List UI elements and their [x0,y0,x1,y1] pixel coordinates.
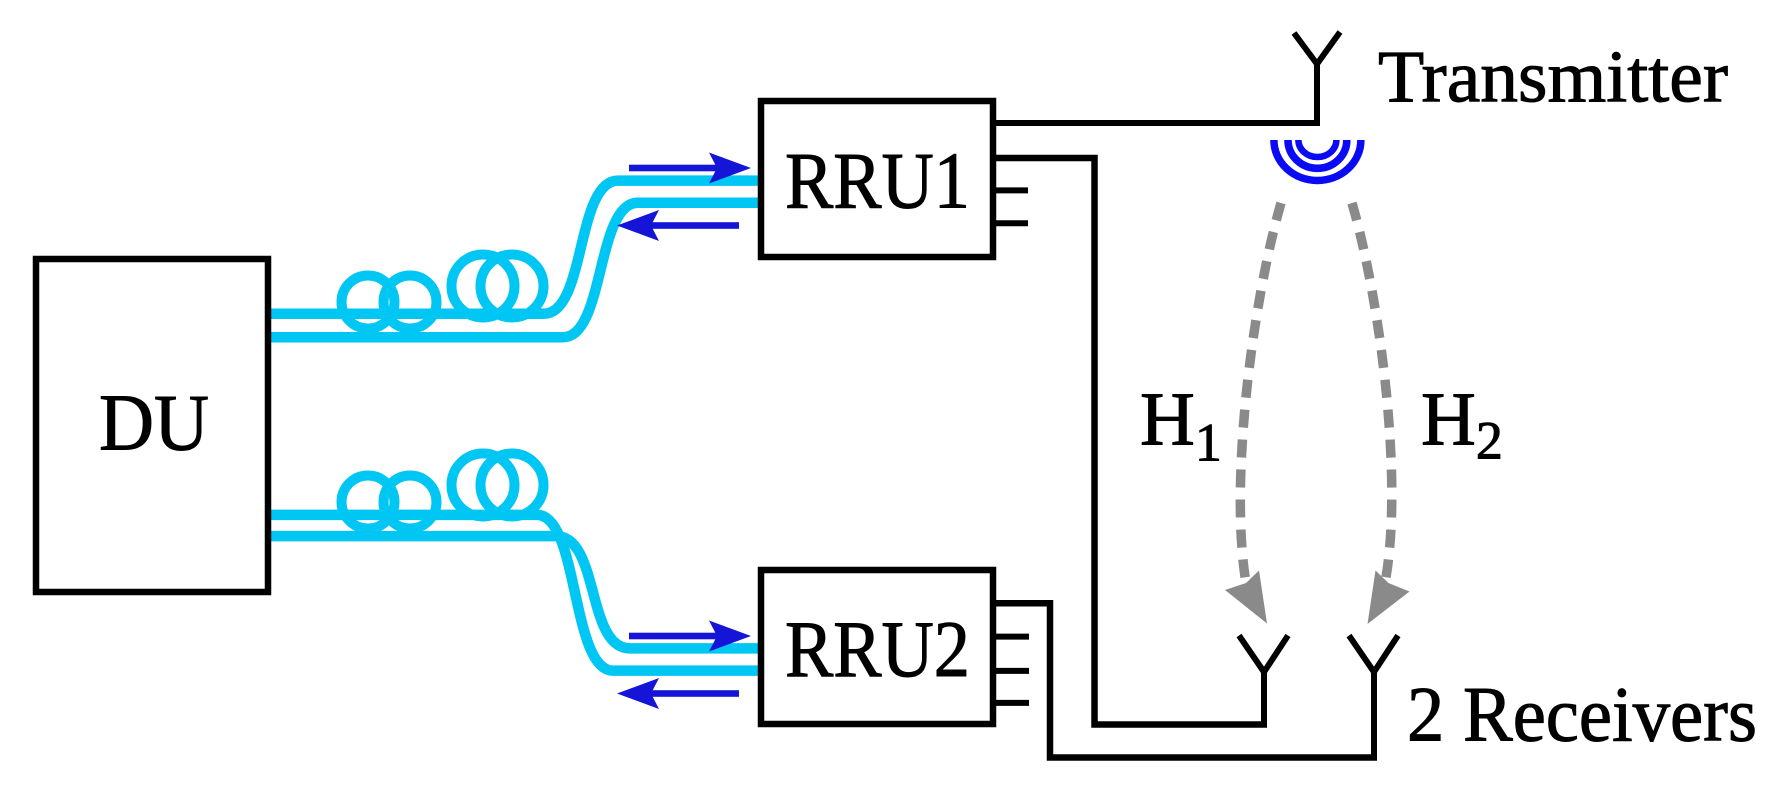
radio wave arcs under transmitter [1274,140,1361,181]
svg-text:Transmitter: Transmitter [1378,37,1728,119]
svg-text:DU: DU [99,380,209,468]
RRU2 box [761,570,993,724]
arrowhead H1 [1225,571,1267,624]
svg-text:RRU1: RRU1 [785,138,970,226]
uplink arrow bottom (left-pointing) [617,678,739,709]
stub RRU2 port3 [996,668,1029,674]
fiber coil group 2 on top path [452,255,515,318]
downlink arrow top (right-pointing) [629,153,751,184]
fiber pair DU to RRU1, upper fiber [269,181,760,314]
receiver 1 antenna [1239,636,1288,725]
stub RRU2 port2 [996,634,1029,640]
DU box [36,259,268,592]
fiber pair DU to RRU2, upper fiber [269,515,760,671]
wire RRU1 port1 to transmitter antenna [996,120,1317,126]
fiber coil group 1 on top path [342,276,395,329]
dashed channel H1 [1240,203,1281,583]
stub RRU1 port4 [996,220,1028,226]
wire RRU2 port1 down to receiver 2 [996,603,1377,757]
stub RRU1 port3 [996,187,1028,193]
stub RRU2 port4 [996,700,1029,706]
dashed channel H2 [1352,203,1392,583]
svg-text:2 Receivers: 2 Receivers [1407,670,1757,757]
downlink arrow bottom (right-pointing) [629,621,751,652]
fiber pair DU to RRU1, lower fiber [269,203,760,338]
receiver 2 antenna [1349,636,1398,758]
uplink arrow top (left-pointing) [617,210,739,241]
transmitter antenna [1294,32,1340,126]
arrowhead H2 [1368,571,1410,625]
fiber pair DU to RRU2, lower fiber [269,536,760,648]
RRU1 box [761,101,993,257]
fiber coil group 1 on bottom path [342,476,395,529]
svg-text:RRU2: RRU2 [785,606,970,694]
wire RRU1 port2 down to receiver 1 [996,158,1267,725]
fiber coil group 2 on bottom path [452,454,515,517]
